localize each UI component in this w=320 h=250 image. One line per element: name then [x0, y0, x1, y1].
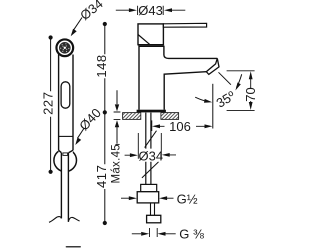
- svg-text:417: 417: [94, 165, 109, 188]
- svg-text:70: 70: [243, 87, 258, 101]
- svg-text:227: 227: [40, 92, 55, 115]
- svg-text:Ø34: Ø34: [139, 148, 164, 163]
- svg-text:148: 148: [94, 54, 109, 77]
- svg-text:Ø43: Ø43: [138, 3, 163, 18]
- svg-text:G½: G½: [177, 192, 198, 207]
- svg-text:106: 106: [169, 119, 191, 134]
- svg-text:Máx.45: Máx.45: [110, 144, 122, 184]
- svg-text:G ⅜: G ⅜: [179, 227, 204, 242]
